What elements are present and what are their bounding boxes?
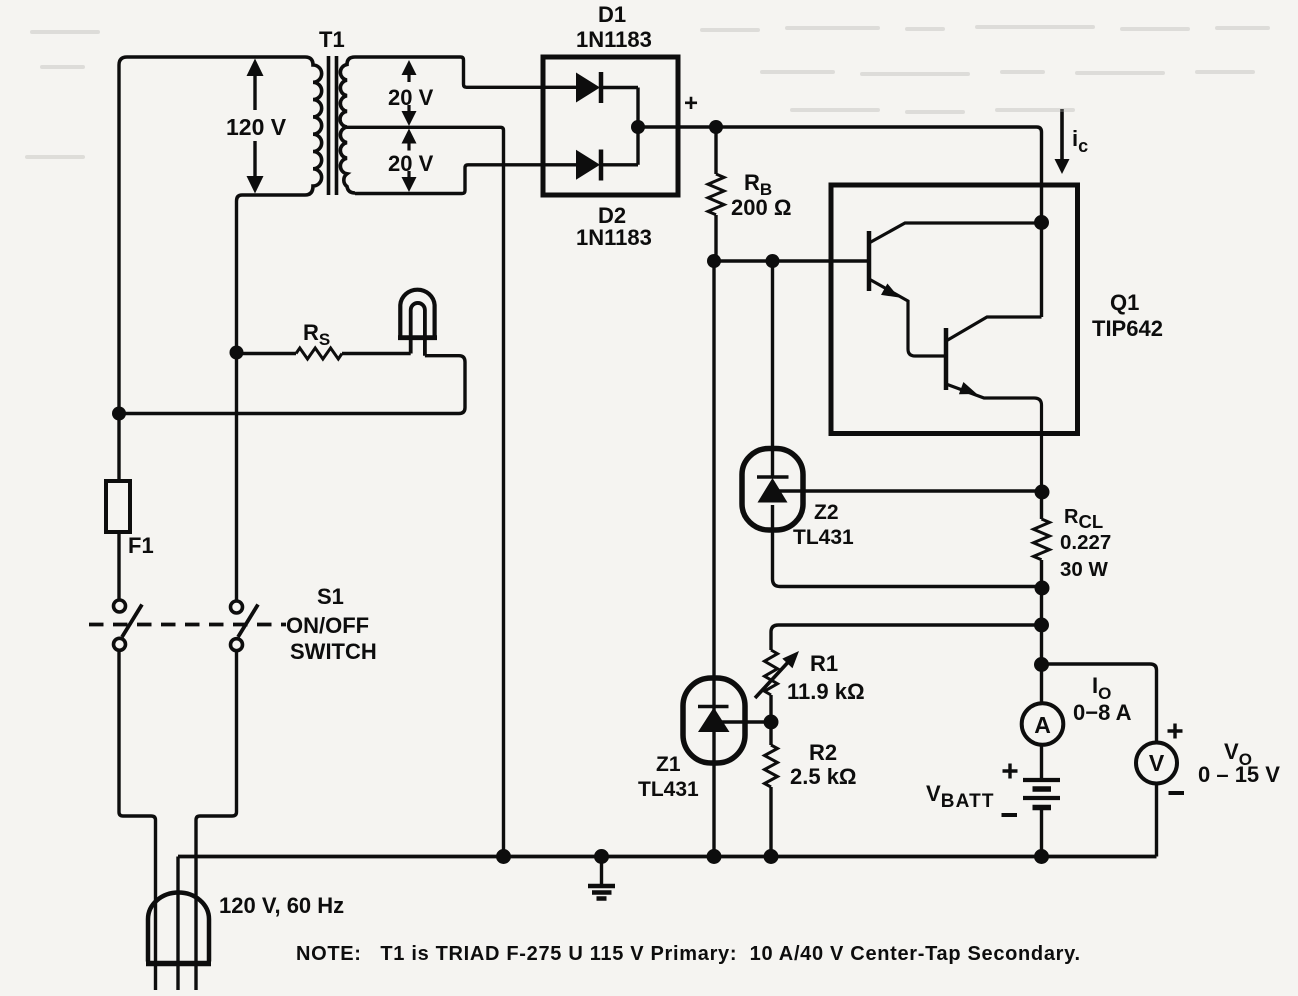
svg-text:120 V, 60 Hz: 120 V, 60 Hz (219, 893, 344, 918)
wire Z2 branch down from base bus (771, 261, 774, 453)
wire secondary bottom to diode D2 (355, 165, 577, 194)
lamp base bar (398, 335, 437, 340)
battery VBATT plates (1023, 780, 1060, 798)
wire D2 to output node (603, 163, 638, 166)
junction dot ground symbol (594, 849, 609, 864)
arrowhead 20V lower winding up (402, 129, 417, 144)
wire switch pole2 to plug prong3 (196, 651, 237, 990)
transformer T1 primary winding (305, 57, 322, 195)
wire top-left rail from T1 primary top down to fuse F1 (119, 57, 305, 481)
wire VO branch (1042, 664, 1157, 743)
battery plus sign (1003, 764, 1018, 779)
transformer T1 core lines (329, 56, 337, 195)
svg-text:ON/OFF: ON/OFF (286, 613, 369, 638)
Z2 reference wire to RCL top (774, 489, 1042, 492)
Z1 cathode bar (698, 705, 729, 709)
voltage arrow 120 V measure line (253, 74, 256, 178)
svg-text:TL431: TL431 (638, 778, 699, 801)
junction dot VO branch node (1034, 657, 1049, 672)
svg-text:1N1183: 1N1183 (576, 27, 652, 52)
junction dot R1 R2 Z1 ref (764, 715, 779, 730)
shaft 20V upper winding up (407, 74, 410, 82)
wire R1 to R2 junction (769, 695, 772, 745)
junction dot RB bottom base bus (707, 254, 721, 268)
wire R2 bottom to ground bus (769, 787, 772, 857)
Q1 inner transistor B collector (946, 317, 1042, 341)
wire switch pole1 to plug prong1 (119, 651, 156, 991)
svg-text:D1: D1 (598, 2, 626, 27)
junction dot Q1 collector node (1034, 215, 1049, 230)
ARROWHEADS AND SOLID SHAPES (112, 59, 1070, 865)
voltmeter minus sign (1169, 791, 1185, 795)
Q1 inner transistor B base bar (944, 328, 949, 390)
junction dot R1 branch node (1034, 618, 1049, 633)
resistor RCL zigzag (1034, 519, 1050, 560)
shaft 20V lower winding down (407, 171, 410, 178)
Q1 inner transistor B emitter (946, 384, 1042, 492)
shaft 20V upper winding down (407, 105, 410, 112)
arrowhead 20V upper winding down (402, 111, 417, 126)
svg-text:R2: R2 (809, 740, 837, 765)
svg-text:R1: R1 (810, 651, 838, 676)
resistor RB zigzag (708, 174, 724, 215)
wire T1 primary bottom down to switch pole2 (237, 195, 306, 601)
wire lamp return to left rail (119, 356, 465, 414)
Z2 cathode bar (757, 475, 789, 479)
svg-text:20 V: 20 V (388, 85, 434, 110)
arrowhead 120V bottom (247, 176, 264, 194)
plug base bar (146, 961, 211, 967)
svg-text:TIP642: TIP642 (1092, 316, 1163, 341)
svg-text:0−8 A: 0−8 A (1073, 700, 1132, 725)
plug body arch (148, 893, 209, 962)
Q1 box (831, 185, 1078, 434)
rectifier box around D1 D2 (543, 57, 678, 195)
voltmeter plus sign (1168, 724, 1183, 739)
junction dot RCL top node (1035, 485, 1050, 500)
lamp shell (400, 290, 434, 338)
shunt regulator Z1 body oval (683, 678, 745, 763)
arrowhead 20V lower winding down (402, 177, 417, 192)
ammeter IO circle (1022, 703, 1064, 745)
wire battery negative to ground bus (1040, 808, 1043, 857)
junction dot R2 ground (764, 849, 779, 864)
svg-text:0.227: 0.227 (1060, 531, 1111, 554)
shaft 20V lower winding up (407, 143, 410, 151)
arrowhead R1 wiper (782, 651, 799, 668)
wire voltmeter bottom to ground bus (1155, 784, 1158, 857)
svg-text:NOTE: T1 is TRIAD F-275 U 11: NOTE: T1 is TRIAD F-275 U 115 V Primary:… (296, 943, 1080, 965)
battery minus sign (1002, 813, 1018, 817)
svg-text:+: + (684, 90, 698, 117)
junction dot battery ground (1034, 849, 1049, 864)
switch S1 dashed link line (89, 623, 286, 627)
arrowhead Q1 transistor B emitter (959, 382, 977, 394)
wire secondary center tap down to ground bus (347, 127, 504, 857)
junction dot RS tap (230, 346, 244, 360)
svg-text:V: V (1149, 750, 1165, 776)
svg-text:Z1: Z1 (656, 753, 681, 776)
ground bus bottom wire (178, 855, 1157, 859)
Q1 inner transistor A base bar (867, 231, 872, 291)
Z2 anode return wire to RCL bottom (773, 505, 1042, 587)
variable resistor R1 zigzag (765, 650, 778, 695)
diode D1 triangle (576, 73, 600, 103)
switch S1 pole2 contacts (231, 601, 243, 613)
wire fuse to switch pole1 (117, 532, 120, 600)
lamp inner filament loop (411, 303, 425, 356)
junction dot Z2 top base bus (766, 254, 780, 268)
switch S1 pole1 blade (122, 605, 142, 638)
wire secondary top to diode D1 (355, 57, 577, 87)
ground symbol bars (588, 884, 615, 889)
ground symbol stem (600, 857, 603, 885)
junction dot left rail lamp return (112, 407, 126, 421)
wire D1 to output node (603, 86, 638, 89)
diode D2 cathode bar (599, 150, 604, 181)
R1 wiper arrow shaft (755, 659, 791, 698)
switch S1 pole1 contacts (114, 600, 126, 612)
diode D1 cathode bar (599, 72, 604, 103)
Z2 internal cathode lead (771, 453, 774, 478)
Z1 zener triangle (698, 708, 730, 733)
arrowhead Q1 transistor A emitter (881, 284, 899, 298)
current arrow ic (1060, 109, 1064, 161)
arrowhead 120V top (247, 59, 264, 77)
resistor RS lead wires (237, 352, 411, 355)
resistor RS zigzag (296, 348, 342, 359)
diode D2 triangle (576, 150, 600, 180)
svg-text:2.5 kΩ: 2.5 kΩ (790, 764, 857, 789)
svg-text:SWITCH: SWITCH (290, 639, 377, 664)
svg-text:Q1: Q1 (1110, 290, 1139, 315)
wire D1 down to junction (636, 88, 639, 128)
svg-text:11.9 kΩ: 11.9 kΩ (787, 679, 865, 704)
svg-text:Z2: Z2 (814, 501, 839, 524)
fuse F1 (106, 481, 130, 532)
Z1 reference wire to R1 R2 junction (716, 720, 771, 723)
svg-text:S1: S1 (317, 584, 344, 609)
svg-text:200 Ω: 200 Ω (731, 195, 791, 220)
transformer T1 secondary winding lower (340, 127, 355, 193)
svg-text:RCL: RCL (1064, 506, 1103, 532)
svg-text:IO: IO (1092, 673, 1111, 703)
Q1 inner transistor A emitter (869, 279, 946, 356)
arrowhead 20V upper winding up (402, 60, 417, 75)
svg-text:VBATT: VBATT (926, 781, 995, 812)
wire Z1 rail from RB junction through Z1 to ground bus (712, 261, 715, 857)
junction dot center tap ground (496, 849, 511, 864)
Q1 inner transistor A collector (869, 223, 1042, 243)
svg-text:F1: F1 (128, 533, 154, 558)
resistor RB leads (714, 127, 717, 261)
wire rectifier + output bus to Q1 collector (638, 127, 1042, 317)
faint scan bleed-through marks (decorative) (25, 25, 1270, 159)
svg-text:A: A (1034, 712, 1051, 738)
junction dot RCL bottom node (1035, 581, 1050, 596)
svg-text:RS: RS (303, 320, 330, 349)
svg-text:1N1183: 1N1183 (576, 225, 652, 250)
junction dot rectifier output (631, 120, 645, 134)
resistor R2 zigzag (765, 745, 778, 787)
junction dot Z1 ground (707, 849, 722, 864)
wire R1 branch top (771, 625, 1042, 650)
svg-text:TL431: TL431 (793, 526, 854, 549)
wire D2 up to junction (636, 127, 639, 165)
voltmeter VO circle (1136, 743, 1177, 784)
arrowhead ic (1055, 159, 1070, 174)
plug prong middle (176, 857, 179, 991)
Z2 zener triangle (758, 478, 788, 503)
wire ammeter to battery (1040, 744, 1043, 780)
junction dot RB top (709, 120, 723, 134)
svg-text:0 – 15 V: 0 – 15 V (1198, 762, 1280, 787)
transformer T1 secondary winding upper (340, 57, 355, 127)
svg-text:120 V: 120 V (226, 114, 287, 140)
switch S1 pole2 blade (238, 605, 258, 638)
shunt regulator Z2 body oval (742, 449, 803, 531)
svg-text:ic: ic (1072, 126, 1088, 156)
svg-text:20 V: 20 V (388, 151, 434, 176)
resistor RCL leads (1040, 492, 1043, 704)
svg-text:T1: T1 (319, 27, 345, 52)
svg-text:30 W: 30 W (1060, 558, 1108, 581)
wire base bus RB to Q1 base (716, 259, 869, 262)
